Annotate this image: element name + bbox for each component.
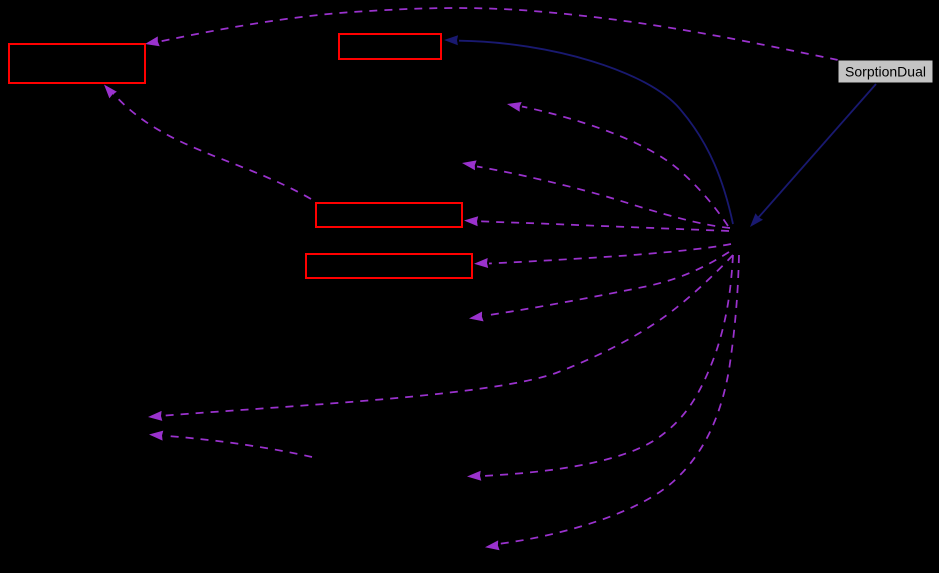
svg-text:SorptionDual: SorptionDual: [845, 64, 926, 80]
edge SorptionDual to hub (blue inheritance): [750, 84, 876, 227]
edge hub to node I (purple dashed usage): [148, 255, 733, 421]
edge hub to box2 (blue inheritance): [444, 35, 733, 224]
edge hub to node D (purple dashed usage): [507, 102, 728, 226]
edge node X to node J (purple dashed usage): [149, 431, 312, 457]
edge SorptionDual to box1 (purple dashed usage): [145, 8, 838, 60]
edge hub to box4 (purple dashed usage): [474, 244, 731, 268]
node box1 (red bordered class): [9, 44, 145, 83]
node box4 (red bordered class): [306, 254, 472, 278]
edge hub to node E (purple dashed usage): [462, 160, 730, 228]
edge box3 to box1 (purple dashed usage): [104, 85, 311, 200]
node box3 (red bordered class): [316, 203, 462, 227]
edge hub to node H (purple dashed usage): [469, 252, 729, 321]
edge hub to box3 (purple dashed usage): [464, 216, 729, 231]
node SorptionDual (current class, gray fill): [838, 60, 933, 83]
edge hub to node L (purple dashed usage): [485, 255, 739, 550]
edge hub to node K (purple dashed usage): [467, 255, 733, 481]
node box2 (red bordered class): [339, 34, 441, 59]
